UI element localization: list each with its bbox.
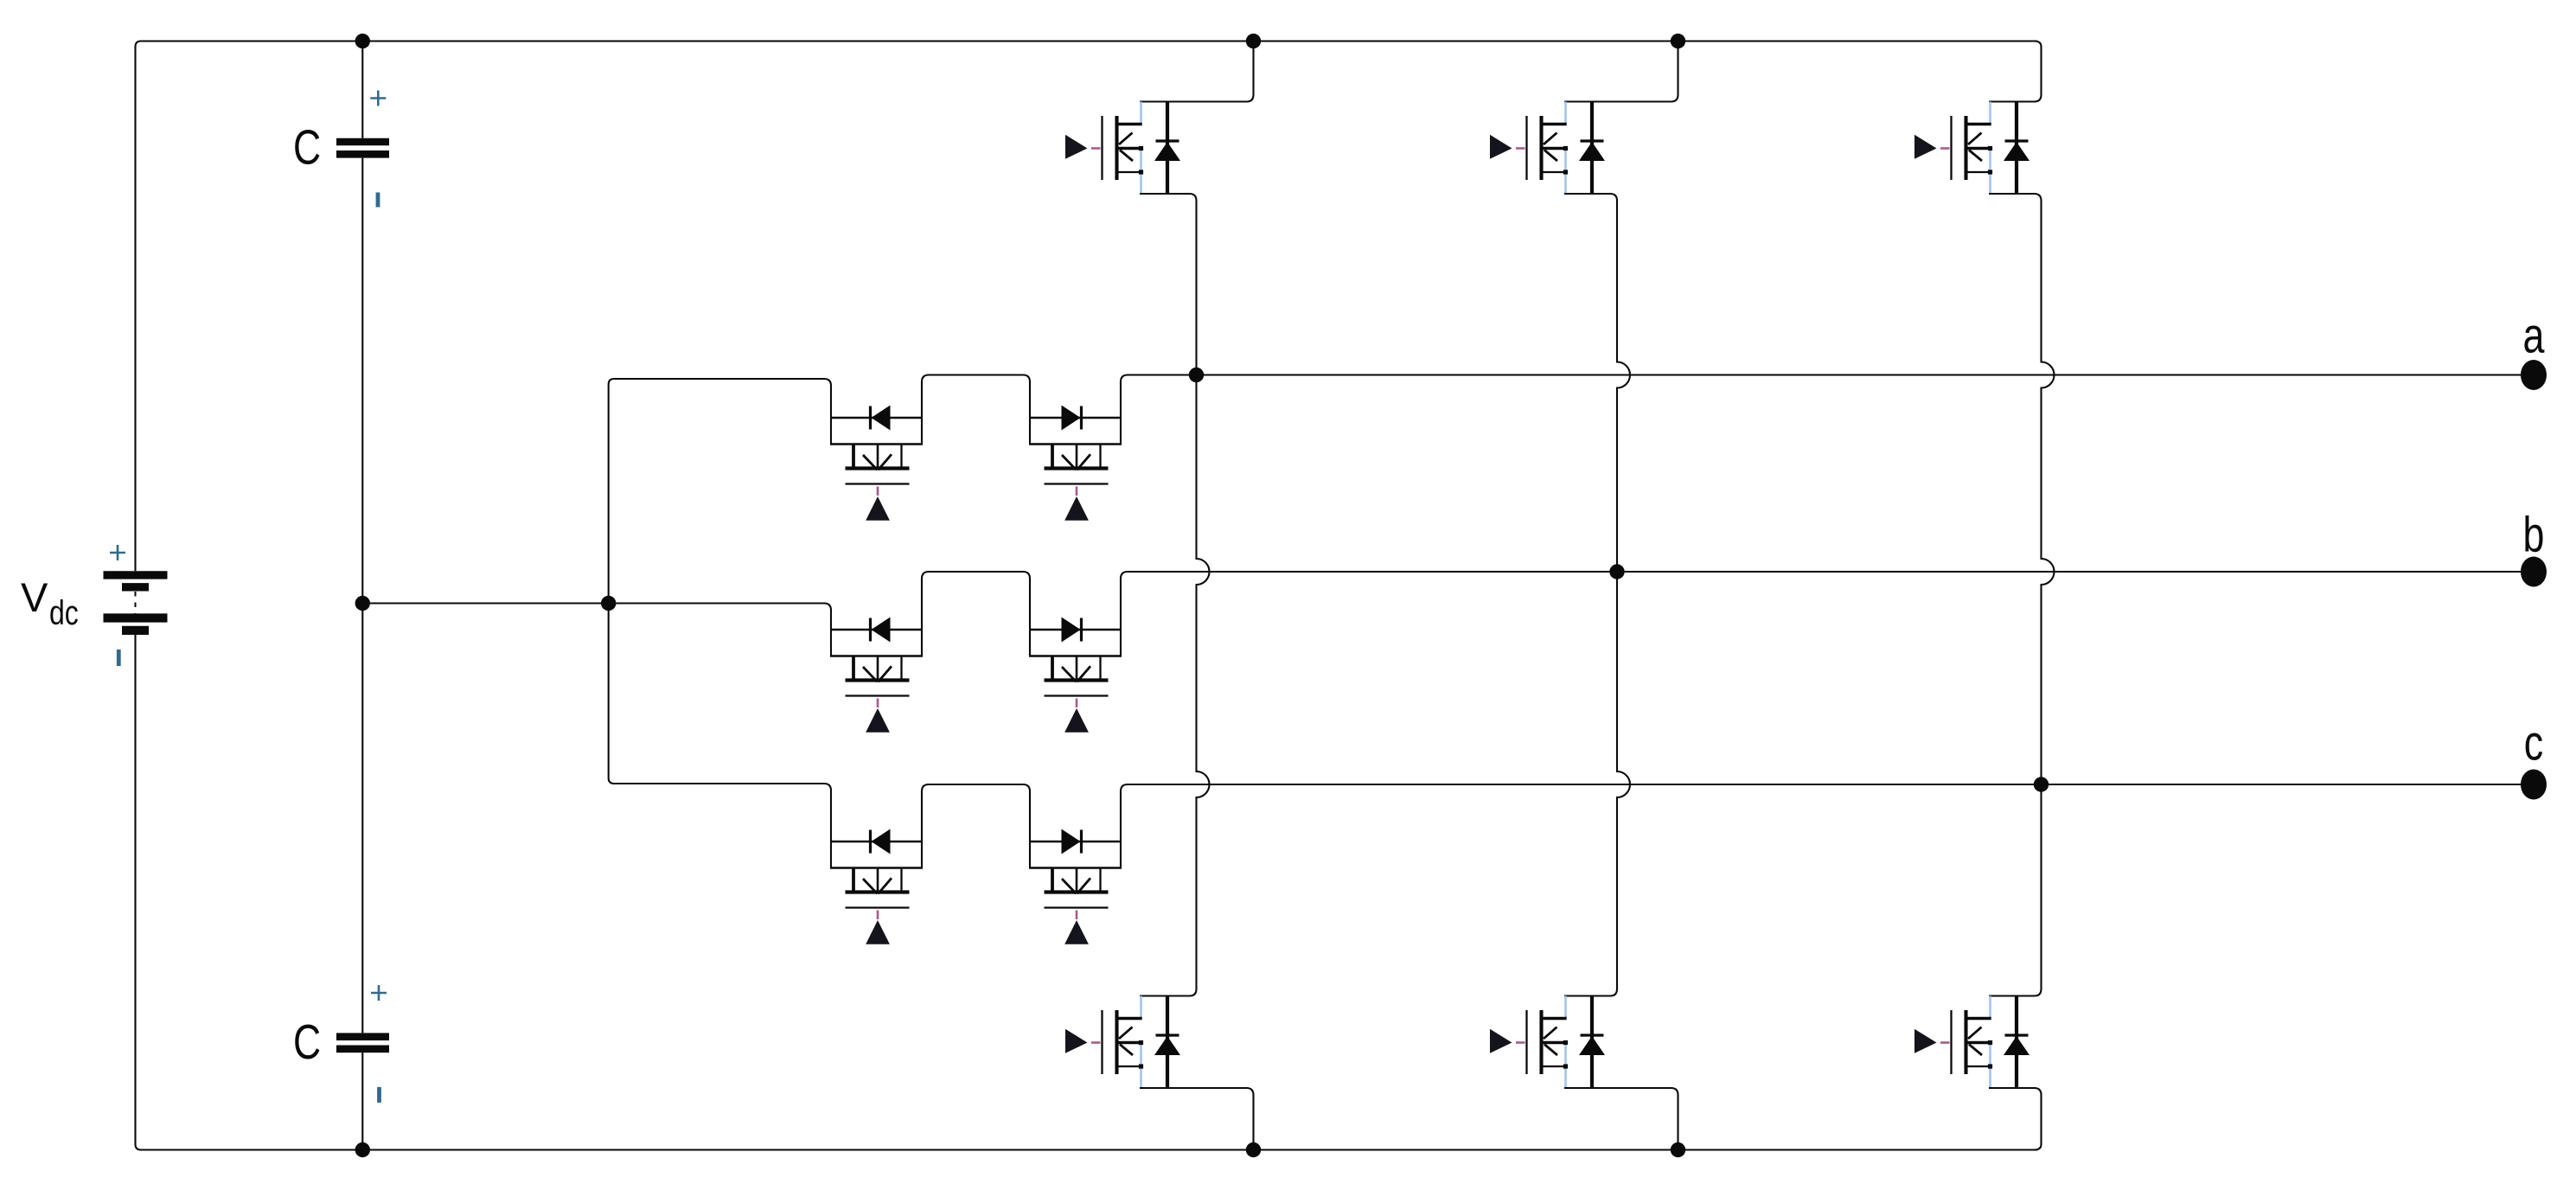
- wire output row b: [1133, 571, 2522, 573]
- svg-text:c: c: [2524, 714, 2543, 771]
- node terminal c: [2521, 770, 2547, 800]
- wire link between phase a clamp switches: [922, 375, 1030, 445]
- wire positive DC rail (top) and left branch upper segment: [136, 42, 2038, 572]
- svg-text:b: b: [2523, 506, 2545, 562]
- capacitor C2 (lower DC-link capacitor): [336, 1037, 389, 1049]
- wire phase b leg (top switch source / output node / bottom switch drain, hops over other phase rows): [1564, 194, 1630, 996]
- label C (upper capacitor): [293, 119, 321, 175]
- wire output row a (clamp output to phase a leg to terminal a): [1133, 374, 2522, 375]
- label C2 plus: [371, 985, 387, 1001]
- transistor Sa1 (phase a upper switch) (MOSFET with antiparallel diode): [1065, 102, 1180, 195]
- label a: [2523, 307, 2545, 363]
- label battery plus: [110, 545, 125, 560]
- wire phase b bottom switch source to DC- rail: [1564, 1088, 1678, 1150]
- label C1 plus: [370, 91, 386, 106]
- wire phase a bottom switch source to DC- rail: [1140, 1088, 1254, 1150]
- wire phase a clamp switch output: [1121, 375, 1141, 445]
- junction phase b output node: [1609, 564, 1624, 579]
- junction DC+ rail / phase b leg: [1671, 34, 1685, 48]
- wire phase c clamp switch output: [1121, 784, 1141, 868]
- label b: [2523, 506, 2545, 562]
- transistor Sa3 (phase a clamp switch, reverse) (MOSFET with antiparallel diode, horizontal): [830, 406, 923, 521]
- wire midpoint into phase b bidirectional switch: [824, 604, 831, 656]
- node terminal b: [2521, 557, 2547, 587]
- junction DC- rail / phase b leg: [1671, 1142, 1685, 1157]
- junction midpoint at capacitor branch: [355, 596, 370, 611]
- svg-text:dc: dc: [49, 593, 79, 632]
- label C (lower capacitor): [293, 1014, 321, 1070]
- wire negative DC rail (bottom) and left branch lower segment: [136, 635, 2038, 1150]
- wire phase b top switch drain to DC+ rail: [1564, 42, 1678, 102]
- label C1 minus: [376, 193, 380, 208]
- transistor Sb4 (phase b clamp switch, forward) (MOSFET with antiparallel diode, horizontal): [1029, 618, 1122, 733]
- junction DC- rail / phase a leg: [1246, 1142, 1261, 1157]
- transistor Sc3 (phase c clamp switch, reverse) (MOSFET with antiparallel diode, horizontal): [830, 829, 923, 944]
- junction phase a output node: [1189, 368, 1204, 382]
- wire phase c top switch drain to DC+ rail (rail end): [1989, 42, 2042, 102]
- junction phase c output node: [2034, 777, 2049, 791]
- wire output row c: [1133, 784, 2522, 785]
- label c: [2524, 714, 2543, 771]
- wire capacitor branch (from top rail through C1, midpoint, C2 to bottom rail): [361, 42, 363, 1150]
- transistor Sa2 (phase a lower switch) (MOSFET with antiparallel diode): [1065, 996, 1180, 1089]
- svg-text:C: C: [293, 119, 321, 175]
- wire phase b clamp switch output: [1121, 572, 1141, 656]
- junction DC+ rail / capacitor branch: [355, 34, 370, 48]
- transistor Sc4 (phase c clamp switch, forward) (MOSFET with antiparallel diode, horizontal): [1029, 829, 1122, 944]
- junction midpoint branch tee: [601, 596, 616, 611]
- svg-text:V: V: [21, 574, 48, 620]
- transistor Sa4 (phase a clamp switch, forward) (MOSFET with antiparallel diode, horizontal): [1029, 406, 1122, 521]
- wire phase c bottom switch source to DC- rail (rail end): [1989, 1088, 2042, 1150]
- transistor Sb2 (phase b lower switch) (MOSFET with antiparallel diode): [1490, 996, 1605, 1089]
- svg-text:C: C: [293, 1014, 321, 1070]
- node terminal a: [2521, 360, 2547, 390]
- wire phase a leg (top switch source / output node / bottom switch drain, hops over other phase rows): [1140, 194, 1210, 996]
- wire phase a top switch drain to DC+ rail: [1140, 42, 1254, 102]
- battery Vdc (DC voltage source): [104, 575, 168, 630]
- transistor Sc2 (phase c lower switch) (MOSFET with antiparallel diode): [1914, 996, 2029, 1089]
- label C2 minus: [377, 1087, 381, 1103]
- wire link between phase b clamp switches: [922, 572, 1030, 656]
- transistor Sb3 (phase b clamp switch, reverse) (MOSFET with antiparallel diode, horizontal): [830, 618, 923, 733]
- label battery minus: [117, 650, 121, 666]
- transistor Sc1 (phase c upper switch) (MOSFET with antiparallel diode): [1914, 102, 2029, 195]
- wire phase c leg (top switch source / output node / bottom switch drain, hops over other phase rows): [1989, 194, 2055, 996]
- transistor Sb1 (phase b upper switch) (MOSFET with antiparallel diode): [1490, 102, 1605, 195]
- junction DC+ rail / phase a leg: [1246, 34, 1261, 48]
- wire neutral midpoint to bidirectional switches: [362, 379, 825, 784]
- wire link between phase c clamp switches: [922, 784, 1030, 868]
- wire midpoint into phase a bidirectional switch: [824, 379, 831, 445]
- junction DC- rail / capacitor branch: [355, 1142, 370, 1157]
- svg-text:a: a: [2523, 307, 2545, 363]
- wire midpoint into phase c bidirectional switch: [824, 784, 831, 868]
- capacitor C1 (upper DC-link capacitor): [336, 142, 389, 154]
